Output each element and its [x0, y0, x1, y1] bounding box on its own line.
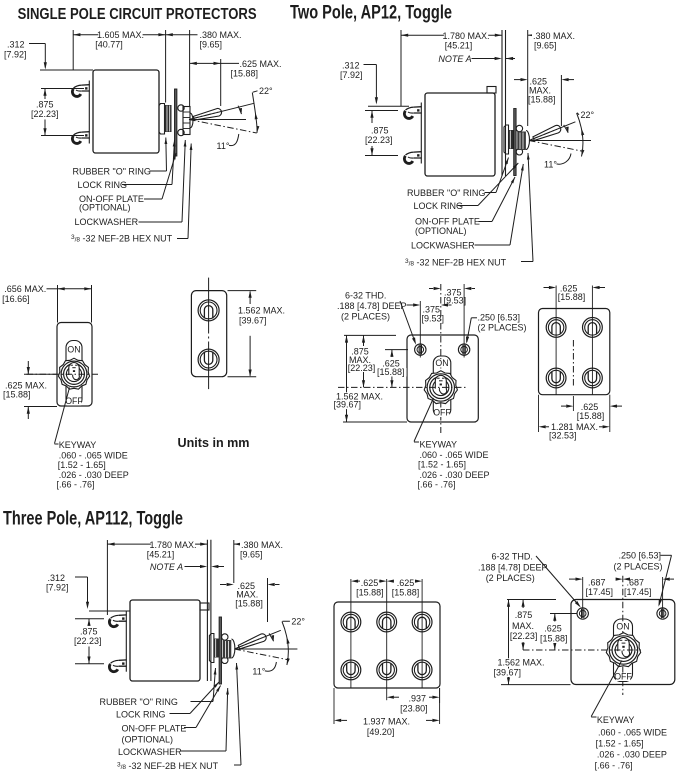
svg-text:.250 [6.53]: .250 [6.53] [619, 550, 662, 560]
dim .937 [439, 688, 441, 703]
toggle lever (bat) [238, 634, 266, 649]
terminal (rear) [341, 612, 361, 632]
svg-text:[15.88]: [15.88] [577, 411, 605, 421]
svg-text:11°: 11° [252, 667, 265, 677]
svg-text:.656 MAX.: .656 MAX. [4, 284, 46, 294]
11 deg dash-dot line [529, 141, 583, 152]
dim 1.780 MAX (3P) [106, 540, 108, 615]
svg-text:.188 [4.78] DEEP: .188 [4.78] DEEP [478, 562, 548, 572]
svg-text:RUBBER "O" RING: RUBBER "O" RING [100, 697, 178, 707]
svg-text:LOCK RING: LOCK RING [78, 180, 128, 190]
svg-text:ON-OFF PLATE: ON-OFF PLATE [122, 724, 187, 734]
svg-text:.380 MAX.: .380 MAX. [533, 31, 575, 41]
svg-text:.937: .937 [409, 693, 427, 703]
bushing circle [433, 379, 449, 395]
svg-text:[17.45]: [17.45] [586, 587, 614, 597]
lever axis centerline [532, 129, 557, 139]
centerline [27, 373, 101, 375]
svg-text:[15.88]: [15.88] [356, 587, 384, 597]
svg-text:KEYWAY: KEYWAY [59, 440, 97, 450]
rear plate (SP) [191, 291, 226, 377]
svg-text:[39.67]: [39.67] [334, 400, 362, 410]
center axis [440, 284, 442, 433]
nut circles [427, 374, 454, 401]
svg-text:1.780 MAX.: 1.780 MAX. [149, 540, 196, 550]
svg-text:1.562 MAX.: 1.562 MAX. [498, 657, 545, 667]
svg-text:[15.88]: [15.88] [392, 587, 420, 597]
svg-text:.026 - .030 DEEP: .026 - .030 DEEP [59, 470, 129, 480]
svg-text:.026 - .030 DEEP: .026 - .030 DEEP [420, 470, 490, 480]
svg-text:[39.67]: [39.67] [494, 668, 522, 678]
svg-text:Three Pole, AP112, Toggle: Three Pole, AP112, Toggle [3, 509, 183, 530]
bat front [618, 637, 630, 656]
svg-text:ON: ON [435, 358, 448, 368]
terminal (rear) [377, 660, 397, 680]
svg-text:MAX.: MAX. [512, 621, 534, 631]
svg-text:.380 MAX.: .380 MAX. [200, 30, 242, 40]
svg-text:[39.67]: [39.67] [239, 316, 267, 326]
svg-text:[15.88]: [15.88] [235, 598, 263, 608]
svg-text:.875: .875 [80, 627, 98, 637]
terminal (rear) [583, 368, 603, 388]
toggle lever (bat) [193, 108, 221, 120]
mounting panel [501, 30, 503, 176]
lock ring ears [178, 105, 184, 111]
dim .625 MAX [190, 62, 239, 64]
terminal column lines [555, 286, 557, 395]
svg-text:SINGLE POLE CIRCUIT PROTECTORS: SINGLE POLE CIRCUIT PROTECTORS [18, 6, 257, 23]
toggle front: lock-ring scallop [424, 371, 457, 404]
svg-text:(OPTIONAL): (OPTIONAL) [415, 226, 467, 236]
rear plate (3P) [334, 602, 440, 688]
dim 1.605 MAX [72, 30, 74, 70]
svg-text:3/8 -32 NEF-2B HEX NUT: 3/8 -32 NEF-2B HEX NUT [117, 761, 219, 771]
svg-text:.625: .625 [361, 578, 379, 588]
mounting screw [458, 344, 469, 355]
terminal (rear) [412, 612, 432, 632]
svg-text:(2 PLACES): (2 PLACES) [478, 323, 527, 333]
screw centerlines [419, 301, 421, 358]
svg-text:NOTE A: NOTE A [150, 562, 183, 572]
svg-text:22°: 22° [259, 86, 273, 96]
rubber O-ring [165, 105, 172, 132]
svg-text:.625 MAX.: .625 MAX. [240, 59, 282, 69]
lever axis centerline [237, 638, 262, 648]
svg-text:[1.52 - 1.65]: [1.52 - 1.65] [596, 739, 644, 749]
svg-text:KEYWAY: KEYWAY [597, 715, 635, 725]
svg-text:[45.21]: [45.21] [147, 550, 175, 560]
dim 1.780 MAX [400, 30, 402, 106]
svg-text:[15.88]: [15.88] [3, 390, 31, 400]
svg-text:[.66 - .76]: [.66 - .76] [418, 479, 456, 489]
svg-text:.875: .875 [36, 100, 54, 110]
11 deg dash-dot line [234, 649, 288, 660]
svg-text:Units in mm: Units in mm [178, 435, 250, 450]
dim .625 MAX (2P) [514, 79, 521, 81]
svg-text:ON-OFF PLATE: ON-OFF PLATE [415, 217, 480, 227]
terminal (rear) [546, 318, 566, 338]
svg-text:[.66 - .76]: [.66 - .76] [57, 479, 95, 489]
mounting screw [415, 344, 426, 355]
svg-text:.687: .687 [627, 577, 645, 587]
svg-text:(OPTIONAL): (OPTIONAL) [122, 734, 174, 744]
svg-text:.625: .625 [544, 623, 562, 633]
rubber O-ring [214, 639, 219, 658]
two-pole switch body [425, 93, 495, 176]
svg-text:RUBBER "O" RING: RUBBER "O" RING [407, 188, 485, 198]
svg-text:[.66 - .76]: [.66 - .76] [595, 760, 633, 770]
mounting screw [657, 608, 668, 619]
dim 1.937 MAX [333, 688, 335, 724]
svg-text:.060 - .065 WIDE: .060 - .065 WIDE [598, 727, 667, 737]
dim .875 MAX (3P front) [507, 599, 556, 601]
svg-text:.380 MAX.: .380 MAX. [241, 540, 283, 550]
horizontal centerline [529, 140, 591, 142]
svg-text:(2 PLACES): (2 PLACES) [341, 311, 390, 321]
upper angle reference line [234, 630, 280, 649]
toggle lever (bat) [533, 125, 561, 140]
dim .380 MAX (2P) [527, 30, 529, 126]
rear plate (2P) [539, 309, 610, 395]
terminal (rear) [377, 612, 397, 632]
svg-text:[15.88]: [15.88] [377, 367, 405, 377]
svg-text:.312: .312 [342, 61, 360, 71]
keyway label (2P) [414, 398, 434, 442]
svg-text:(2 PLACES): (2 PLACES) [614, 561, 663, 571]
hex nut [223, 640, 232, 659]
svg-text:[15.88]: [15.88] [540, 634, 568, 644]
angle tick arrow [269, 633, 274, 641]
svg-text:RUBBER "O" RING: RUBBER "O" RING [73, 166, 151, 176]
mounting panel [206, 540, 208, 681]
centerline horizontal (3P front) [523, 649, 641, 651]
front plate (3P) [571, 600, 675, 685]
svg-text:1.937 MAX.: 1.937 MAX. [363, 717, 410, 727]
svg-text:[22.23]: [22.23] [74, 636, 102, 646]
single-pole switch body [93, 70, 159, 153]
11 deg dash-dot line [189, 120, 257, 134]
terminal (rear) [412, 660, 432, 680]
bushing flange [209, 634, 214, 663]
svg-text:OFF: OFF [614, 672, 632, 682]
bushing flange [504, 125, 509, 154]
keyway label (3P) [591, 661, 622, 717]
svg-text:.312: .312 [48, 573, 66, 583]
svg-text:6-32 THD.: 6-32 THD. [345, 291, 386, 301]
hex nut [517, 132, 526, 151]
dim .375 left [407, 304, 414, 306]
svg-text:Two Pole, AP12, Toggle: Two Pole, AP12, Toggle [290, 3, 452, 24]
svg-text:[17.45]: [17.45] [624, 587, 652, 597]
nut circles [61, 361, 87, 387]
dim .625 (2P front) [385, 349, 408, 351]
bushing flange [159, 104, 165, 135]
svg-text:LOCK RING: LOCK RING [116, 710, 166, 720]
dim .625 (3P front) [550, 613, 578, 615]
bat front [69, 363, 80, 380]
dim .380 MAX (3P) [233, 540, 235, 583]
dim .380 MAX [166, 34, 198, 36]
svg-text:KEYWAY: KEYWAY [420, 439, 458, 449]
svg-text:.250 [6.53]: .250 [6.53] [478, 313, 521, 323]
svg-text:1.605 MAX.: 1.605 MAX. [97, 30, 144, 40]
dim .625 bottom (F) [572, 396, 574, 411]
svg-text:22°: 22° [581, 110, 595, 120]
svg-text:[9.53]: [9.53] [444, 295, 467, 305]
bushing end [526, 131, 530, 150]
svg-text:[40.77]: [40.77] [95, 40, 123, 50]
svg-text:[22.23]: [22.23] [31, 109, 59, 119]
screw centerlines (3P) [582, 577, 584, 618]
dim .875 MAX (2P front) [344, 334, 396, 336]
on-off strip (2P) [433, 356, 451, 417]
toggle front: lock-ring scallop [606, 633, 640, 667]
dim .625 MAX (3P) [220, 584, 226, 586]
dim .625 MAX (front) [24, 373, 57, 375]
svg-text:OFF: OFF [433, 408, 451, 418]
front plate (2P) [407, 335, 478, 422]
svg-text:[22.23]: [22.23] [365, 135, 393, 145]
front plate (SP) [57, 323, 92, 407]
angle arc [282, 622, 288, 666]
svg-text:[1.52 - 1.65]: [1.52 - 1.65] [58, 460, 106, 470]
bushing end [190, 113, 193, 128]
lever axis centerline [192, 112, 218, 119]
hex nut [183, 107, 190, 135]
svg-text:[15.88]: [15.88] [528, 95, 556, 105]
dim 1.281 MAX [538, 395, 540, 432]
keyway label (SP) [55, 388, 70, 444]
dim .687 right [616, 578, 623, 581]
svg-text:[9.65]: [9.65] [200, 40, 223, 50]
angle tick arrow [564, 125, 569, 133]
dim .875 [41, 88, 84, 90]
on-off plate strip [66, 341, 82, 407]
svg-text:3/8 -32 NEF-2B HEX NUT: 3/8 -32 NEF-2B HEX NUT [405, 258, 507, 268]
nut circles [609, 636, 637, 664]
svg-text:[9.53]: [9.53] [422, 314, 445, 324]
svg-text:.625: .625 [397, 578, 415, 588]
svg-text:3/8 -32 NEF-2B HEX NUT: 3/8 -32 NEF-2B HEX NUT [71, 234, 173, 244]
svg-text:1.780 MAX.: 1.780 MAX. [442, 31, 489, 41]
dim .875 (2P) [365, 110, 398, 112]
svg-text:[7.92]: [7.92] [46, 583, 69, 593]
bushing circle [615, 642, 632, 659]
svg-text:ON: ON [616, 622, 629, 632]
svg-text:.026 - .030 DEEP: .026 - .030 DEEP [597, 749, 667, 759]
svg-text:.188 [4.78] DEEP: .188 [4.78] DEEP [337, 301, 407, 311]
svg-text:[22.23]: [22.23] [510, 631, 538, 641]
angle tick arrow [238, 106, 241, 114]
on-off plate (side) [175, 89, 177, 156]
terminal column lines (3P) [350, 579, 352, 688]
terminal (rear) [341, 660, 361, 680]
dim .687 left [569, 578, 576, 580]
dim .625 right (I) [387, 580, 394, 583]
bushing circle [66, 366, 81, 381]
angle arc [577, 113, 583, 157]
svg-text:11°: 11° [544, 160, 557, 170]
center dash line [572, 340, 574, 386]
svg-text:[15.88]: [15.88] [231, 68, 259, 78]
svg-text:.875: .875 [371, 126, 389, 136]
svg-text:[22.23]: [22.23] [348, 363, 376, 373]
dim .875 (3P) [75, 618, 104, 620]
lock ring ears [222, 634, 228, 640]
dim 1.562 (2P front) [346, 335, 348, 422]
lock ring ears [516, 125, 522, 131]
svg-text:.060 - .065 WIDE: .060 - .065 WIDE [420, 450, 489, 460]
svg-text:[23.80]: [23.80] [400, 703, 428, 713]
terminal (rear) [583, 318, 603, 338]
dim 1.562 (3P front) [508, 600, 510, 685]
dim .625 left (I) [351, 580, 358, 583]
svg-text:.687: .687 [588, 577, 606, 587]
terminal (rear) [198, 300, 219, 321]
svg-text:[1.52 - 1.65]: [1.52 - 1.65] [418, 460, 466, 470]
dim .375 right [429, 288, 433, 290]
svg-text:OFF: OFF [65, 396, 83, 406]
on-off plate (side) [514, 109, 516, 176]
svg-text:[32.53]: [32.53] [549, 431, 577, 441]
on-off strip (3P) [614, 619, 633, 682]
dim 1.562 MAX (D) [228, 290, 257, 292]
svg-text:NOTE A: NOTE A [438, 54, 471, 64]
svg-text:ON: ON [67, 345, 80, 355]
svg-text:.312: .312 [7, 40, 25, 50]
svg-text:[9.65]: [9.65] [534, 41, 557, 51]
horizontal centerline [189, 119, 246, 121]
svg-text:[49.20]: [49.20] [367, 727, 395, 737]
svg-text:1.562 MAX.: 1.562 MAX. [238, 305, 285, 315]
svg-text:[15.88]: [15.88] [558, 292, 586, 302]
svg-text:[9.65]: [9.65] [240, 550, 263, 560]
centerline horizontal (2P front) [338, 386, 466, 388]
dim .625 top (F) [544, 287, 550, 289]
upper angle reference line [529, 122, 575, 141]
svg-text:(2 PLACES): (2 PLACES) [486, 573, 535, 583]
terminal (rear) [198, 349, 219, 370]
svg-text:11°: 11° [217, 141, 230, 151]
svg-text:22°: 22° [291, 617, 305, 627]
terminal (rear) [546, 368, 566, 388]
svg-text:[45.21]: [45.21] [445, 41, 473, 51]
svg-text:.875: .875 [515, 610, 533, 620]
svg-text:LOCK RING: LOCK RING [414, 201, 464, 211]
svg-text:LOCKWASHER: LOCKWASHER [411, 240, 475, 250]
horizontal centerline [234, 648, 297, 650]
bushing end [231, 639, 235, 658]
bat front [435, 375, 446, 394]
svg-text:LOCKWASHER: LOCKWASHER [75, 217, 139, 227]
rubber O-ring [509, 130, 514, 149]
centerline vertical [208, 278, 210, 334]
mounting screw [577, 608, 588, 619]
svg-text:[7.92]: [7.92] [340, 70, 363, 80]
three-pole switch body [130, 600, 200, 681]
svg-text:[16.66]: [16.66] [2, 294, 30, 304]
on-off plate (side) [219, 617, 221, 684]
upper angle reference line [189, 103, 254, 119]
angle arc [252, 93, 257, 133]
svg-text:6-32 THD.: 6-32 THD. [492, 552, 533, 562]
svg-text:LOCKWASHER: LOCKWASHER [118, 747, 182, 757]
svg-text:(OPTIONAL): (OPTIONAL) [79, 203, 131, 213]
dim .656 MAX [57, 285, 59, 323]
svg-text:.060 - .065 WIDE: .060 - .065 WIDE [59, 450, 128, 460]
center axis (3P) [622, 576, 624, 695]
toggle front: lock-ring scallop [58, 358, 89, 389]
svg-text:[7.92]: [7.92] [4, 50, 27, 60]
